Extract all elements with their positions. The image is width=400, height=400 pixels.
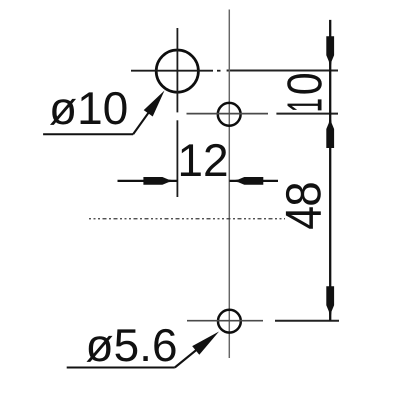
- dimension 12 : dimension line left tail: [118, 180, 178, 182]
- label O10 : leader line: [133, 97, 160, 135]
- dimension 10 : value text (rotated): [287, 74, 322, 110]
- centerline vertical of hole O10: [176, 28, 178, 197]
- label O5.6 : underline: [67, 366, 175, 368]
- dimension 10/48 : vertical dimension line: [329, 20, 331, 321]
- dimension 12 : left arrowhead: [143, 177, 177, 185]
- label O5.6 : text: [86, 329, 175, 362]
- centerline vertical of holes O5.6: [228, 10, 230, 359]
- dimension 12 : right arrowhead: [229, 177, 263, 185]
- dimension 10 : bottom arrowhead (points up): [326, 114, 334, 148]
- dimension 12 : value text: [181, 144, 226, 176]
- centerline horizontal of bottom hole with extension: [187, 320, 339, 322]
- dimension 10 : top arrowhead (points down): [326, 36, 334, 70]
- label O10 : underline: [43, 133, 133, 135]
- centerline horizontal of hole O10 with extension to dim 10: [131, 70, 338, 72]
- dimension 48 : bottom arrowhead (points down): [326, 286, 334, 320]
- label O10 : leader arrowhead: [144, 91, 165, 117]
- hole O5.6 top: [218, 103, 241, 126]
- dashed symmetry centerline: [89, 218, 285, 220]
- label O10 : text: [50, 92, 126, 125]
- dimension 48 : value text (rotated): [286, 183, 321, 229]
- label O5.6 : leader arrowhead: [192, 332, 219, 355]
- dimension 12 : dimension line right tail: [229, 180, 278, 182]
- hole O10 (big circle): [156, 50, 198, 92]
- hole O5.6 bottom: [218, 310, 241, 333]
- label O5.6 : leader line: [175, 341, 207, 367]
- centerline horizontal of top hole with extension: [187, 113, 339, 115]
